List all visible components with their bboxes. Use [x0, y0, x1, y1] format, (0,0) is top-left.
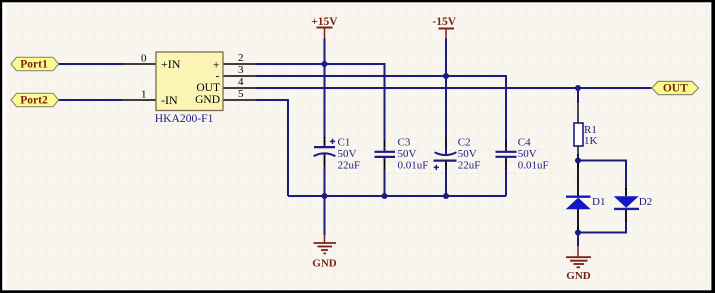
power +15V bar: [317, 27, 333, 29]
pin D1 top: [577, 163, 579, 197]
pin R1 top: [577, 101, 579, 123]
svg-text:C3: C3: [398, 137, 411, 149]
pin C4 top: [505, 141, 507, 148]
pin 3: [223, 75, 256, 77]
pin 1: [122, 99, 156, 101]
pin D2 top: [625, 188, 627, 196]
junction C3/bus: [382, 193, 388, 199]
wire pin2 +15V net horizontal: [256, 64, 385, 142]
junction -15V/pin3: [443, 73, 449, 79]
port Port2 shape: [11, 93, 59, 106]
pin C3 top: [384, 141, 386, 147]
svg-text:GND: GND: [312, 257, 337, 269]
svg-text:2: 2: [238, 52, 244, 64]
wire C2 bottom: [445, 169, 447, 197]
resistor R1 body: [574, 123, 583, 146]
pin C4 bottom: [505, 160, 507, 169]
capacitor C2 plates: [435, 152, 457, 155]
capacitor C3 plates: [375, 151, 396, 153]
wire right gnd drop: [577, 233, 579, 247]
port Port1 shape: [11, 57, 59, 70]
wire D1 bottom stub: [577, 227, 579, 233]
svg-text:50V: 50V: [458, 148, 477, 160]
capacitor C1 plus sign: [330, 139, 335, 144]
junction +15V/pin2: [322, 61, 328, 67]
pin 2: [223, 63, 256, 65]
port OUT shape: [652, 81, 699, 94]
junction OUT/R1: [575, 85, 581, 91]
svg-text:+15V: +15V: [311, 16, 338, 28]
wire pin5 down to bus: [256, 100, 288, 196]
wire pin4 OUT net: [256, 87, 652, 89]
wire D2 bottom loop: [578, 220, 626, 233]
pin D2 bottom: [625, 209, 627, 221]
pin 5: [223, 99, 256, 101]
svg-text:Port2: Port2: [20, 95, 48, 107]
svg-text:C1: C1: [338, 137, 351, 149]
svg-text:22uF: 22uF: [338, 159, 361, 171]
junction R1/diodes top: [575, 158, 581, 164]
wire R1 to diode junction: [577, 154, 579, 161]
svg-text:GND: GND: [195, 94, 220, 106]
wire ground bus: [288, 195, 506, 197]
svg-text:5: 5: [238, 88, 244, 100]
svg-text:4: 4: [238, 76, 244, 88]
wire Port2 to pin1: [59, 99, 123, 101]
wire D1 top stub: [577, 161, 579, 168]
pin 4: [223, 87, 256, 89]
svg-text:HKA200-F1: HKA200-F1: [155, 112, 214, 125]
svg-text:OUT: OUT: [663, 83, 688, 95]
wire C4 bottom: [505, 157, 507, 161]
wire Port1 to pin0: [59, 63, 123, 65]
svg-text:22uF: 22uF: [458, 159, 481, 171]
svg-text:1: 1: [141, 89, 147, 101]
wire diode branch to D2: [578, 161, 626, 191]
svg-text:+IN: +IN: [161, 57, 181, 71]
diode D1 cathode bar: [566, 195, 591, 197]
diode D1 triangle: [566, 198, 591, 210]
wire pin3 -15V net horizontal: [256, 76, 506, 142]
capacitor C2 plus sign: [434, 165, 439, 170]
junction diodes bottom: [575, 230, 581, 236]
pin C1 top: [324, 137, 326, 145]
junction C2/bus: [443, 193, 449, 199]
wire C1 top gap: [324, 144, 326, 147]
pin C1 bottom: [324, 156, 326, 166]
svg-text:-15V: -15V: [432, 16, 456, 28]
op-amp module body: [156, 52, 223, 111]
svg-text:3: 3: [238, 64, 244, 76]
diode D2 triangle: [614, 196, 639, 208]
wire -15V vertical to C2: [445, 39, 447, 140]
svg-text:-: -: [216, 69, 220, 83]
pin R1 bottom: [577, 146, 579, 155]
wire C2 top gap to arc: [445, 148, 447, 155]
svg-text:1K: 1K: [584, 135, 598, 147]
svg-text:0: 0: [141, 53, 147, 65]
pin C2 bottom: [445, 161, 447, 169]
wire OUT junction to R1: [577, 88, 579, 102]
svg-text:C4: C4: [518, 137, 531, 149]
svg-text:50V: 50V: [398, 148, 417, 160]
pin C2 top: [445, 139, 447, 148]
svg-text:50V: 50V: [518, 148, 537, 160]
wire gnd drop left: [324, 196, 326, 235]
capacitor C4 plates: [496, 151, 517, 153]
svg-text:0.01uF: 0.01uF: [518, 159, 549, 171]
power -15V bar: [439, 28, 455, 30]
svg-text:D1: D1: [592, 196, 605, 208]
ground left (below bus): [324, 235, 326, 244]
capacitor C1 plates: [314, 146, 335, 148]
svg-text:-IN: -IN: [161, 93, 178, 107]
wire C1 bottom: [324, 154, 326, 158]
wire +15V vertical to C1: [324, 39, 326, 139]
svg-text:0.01uF: 0.01uF: [398, 159, 429, 171]
junction C1/bus: [322, 193, 328, 199]
svg-text:50V: 50V: [338, 148, 357, 160]
svg-text:Port1: Port1: [20, 59, 48, 71]
svg-text:GND: GND: [566, 270, 591, 282]
wire C3 bottom: [384, 157, 386, 161]
svg-text:D2: D2: [639, 196, 652, 208]
pin C3 bottom: [384, 160, 386, 169]
diode D2 cathode bar: [614, 208, 639, 210]
svg-text:OUT: OUT: [196, 82, 220, 94]
pin 0: [122, 63, 156, 65]
ground right (below diodes): [577, 246, 579, 257]
svg-text:C2: C2: [458, 137, 471, 149]
pin D1 bottom: [577, 209, 579, 229]
